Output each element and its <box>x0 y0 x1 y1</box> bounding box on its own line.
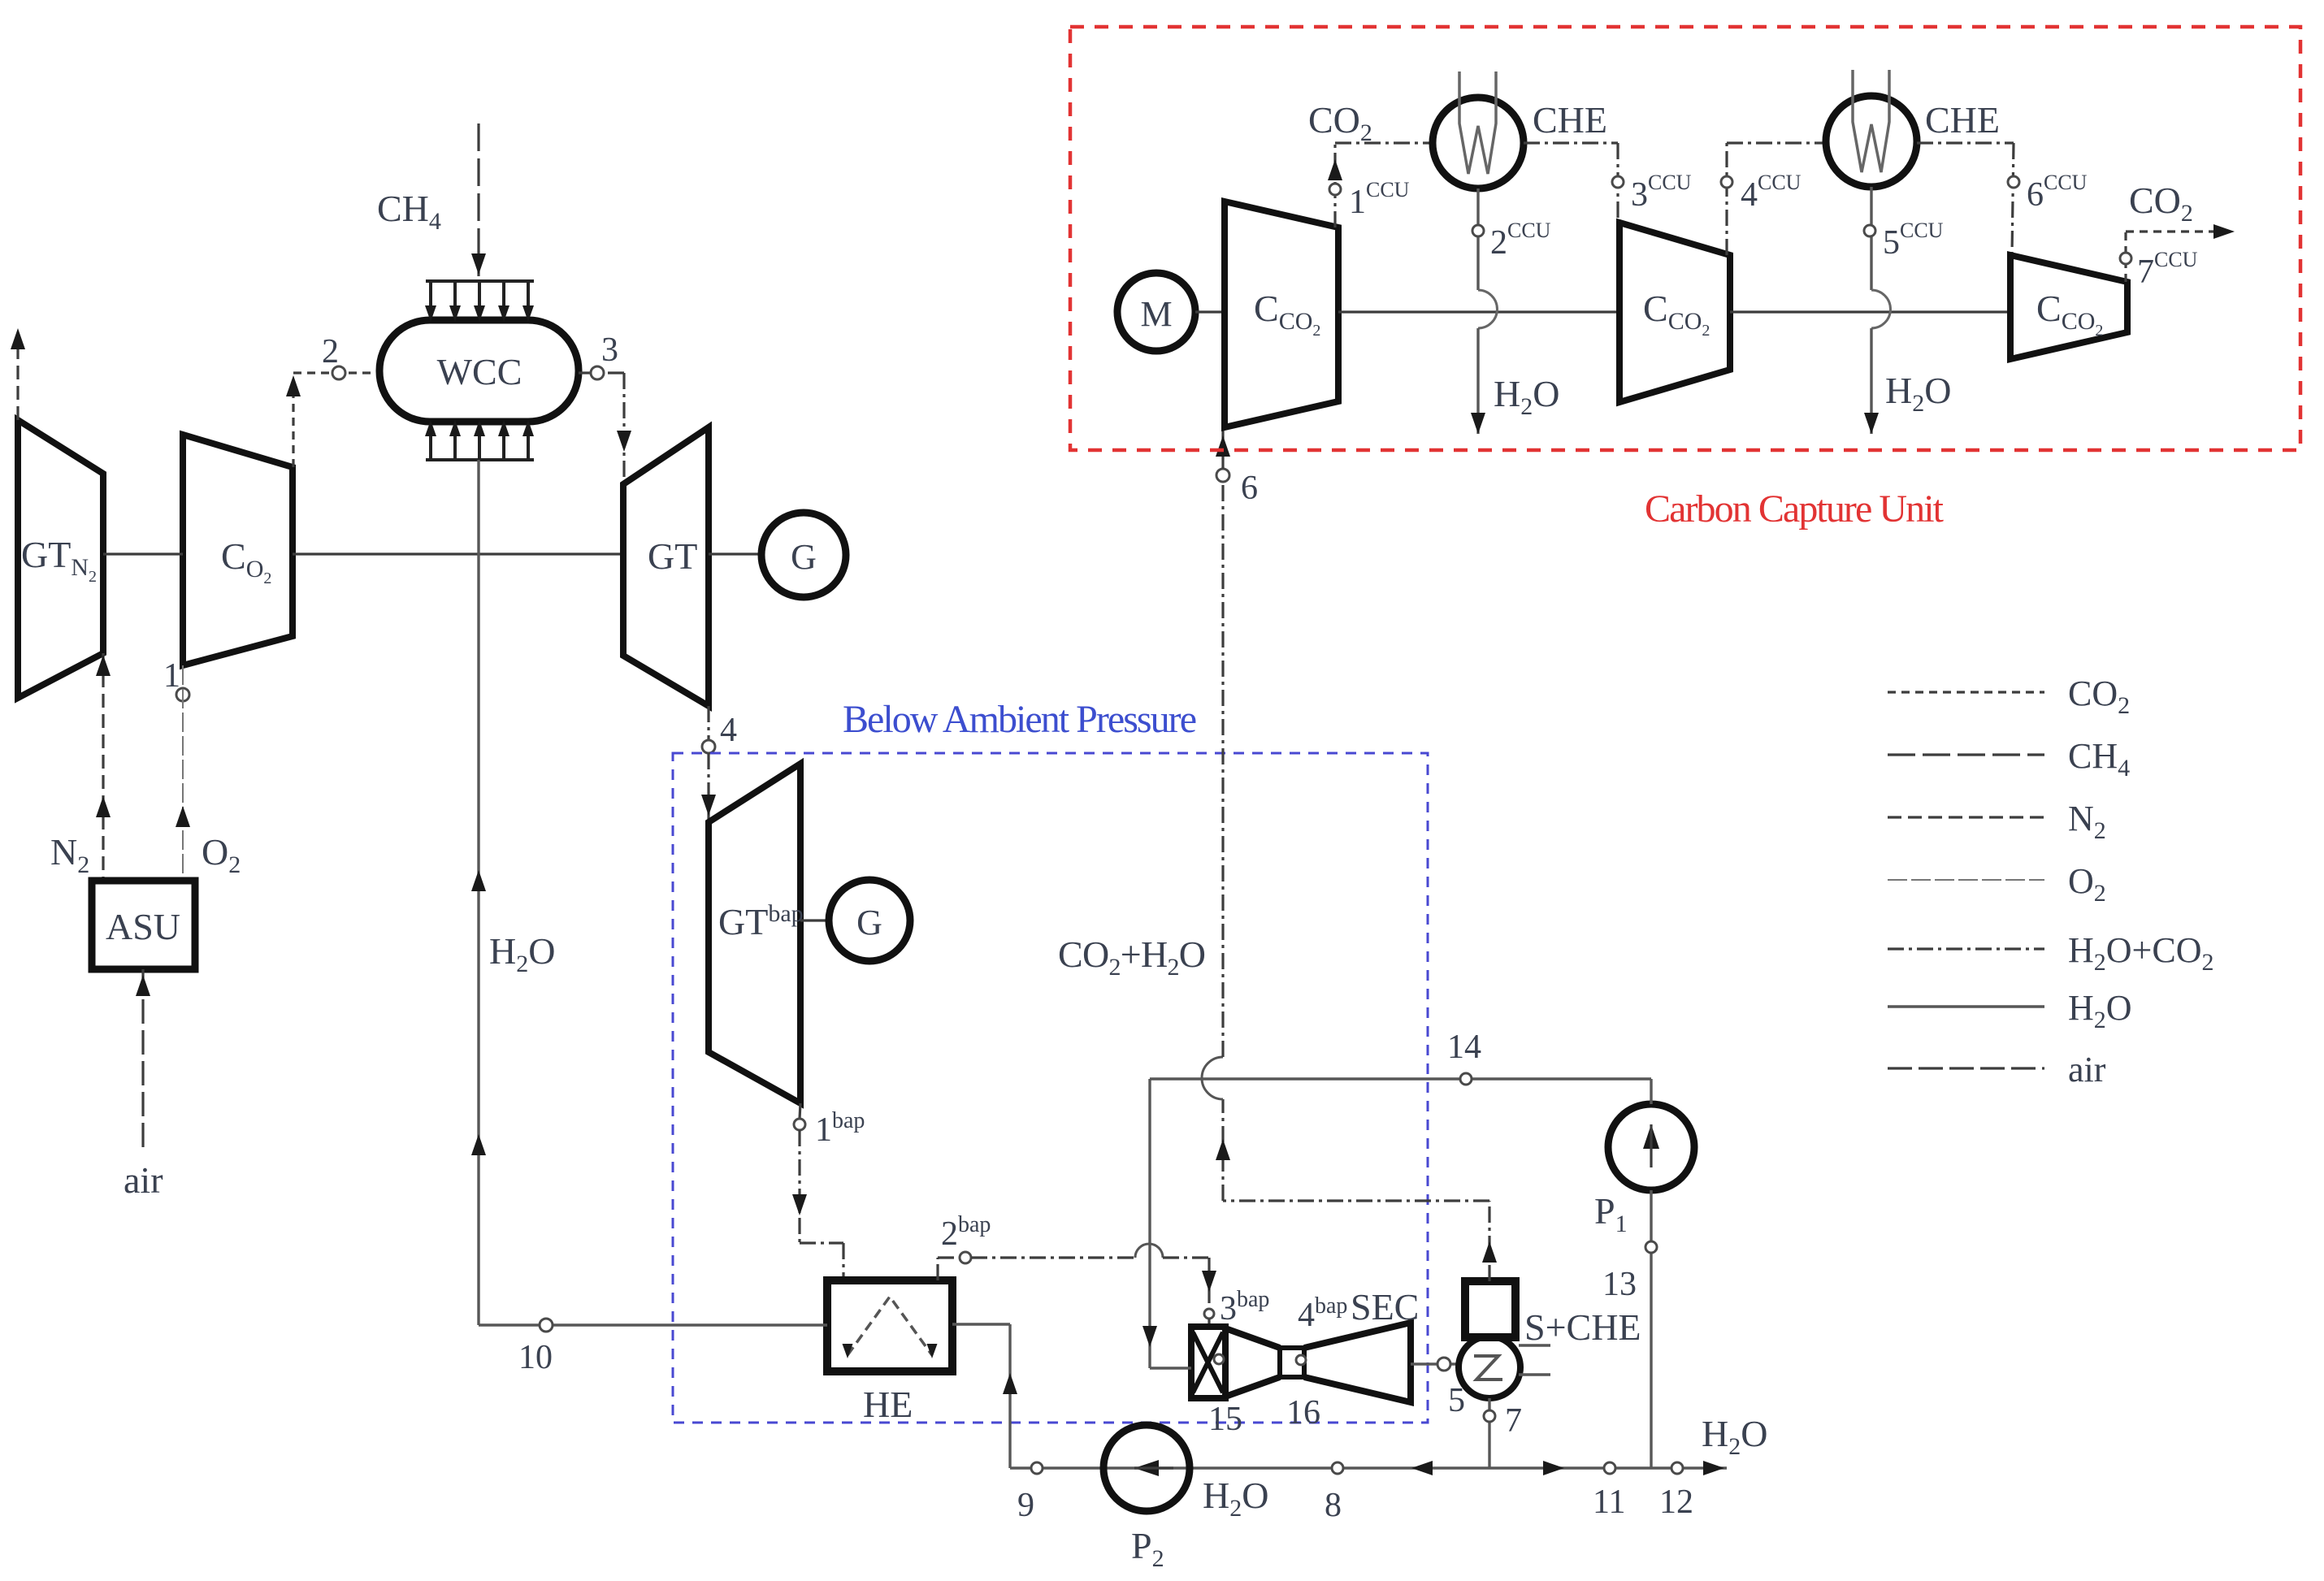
wire C3 outlet node 7ccu CO2 out <box>2124 232 2127 282</box>
svg-text:CO2: CO2 <box>2129 180 2193 227</box>
ASU box <box>92 881 195 969</box>
wire CHE1 to node 3ccu <box>1524 141 1618 144</box>
svg-text:6CCU: 6CCU <box>2027 171 2088 214</box>
wire C2 outlet node 4ccu <box>1725 143 1728 255</box>
legend O2 <box>1888 879 2044 881</box>
svg-text:7CCU: 7CCU <box>2137 248 2198 291</box>
node 1bap <box>800 1103 800 1119</box>
svg-text:7: 7 <box>1505 1402 1522 1440</box>
heat exchanger CHE1 <box>1433 97 1524 188</box>
wire CH4 into WCC <box>477 123 479 276</box>
wire S+CHE drain node 7 <box>1488 1398 1490 1468</box>
svg-text:G: G <box>791 537 817 577</box>
svg-text:P1: P1 <box>1594 1190 1628 1237</box>
svg-text:O2: O2 <box>202 831 241 878</box>
wire N2 ASU to GTN2 <box>102 653 104 881</box>
WCC bottom injector comb <box>426 435 534 460</box>
svg-text:CHE: CHE <box>1533 99 1607 141</box>
node 1 <box>176 688 189 701</box>
wire GT exhaust node 4 <box>707 706 709 740</box>
shaft M-C1 <box>1195 310 1225 313</box>
svg-text:1CCU: 1CCU <box>1349 178 1410 221</box>
node 6 <box>1216 469 1229 482</box>
svg-text:14: 14 <box>1447 1029 1481 1066</box>
svg-text:4bap: 4bap <box>1298 1293 1347 1334</box>
wire HE to node 2bap <box>936 1258 939 1280</box>
wire CHE2 condensate drain <box>1870 187 1872 290</box>
svg-text:12: 12 <box>1659 1484 1693 1521</box>
ejector SEC body <box>1225 1328 1280 1397</box>
ejector nozzle <box>1193 1332 1223 1393</box>
svg-text:11: 11 <box>1593 1484 1625 1521</box>
svg-text:GTbap: GTbap <box>718 900 804 942</box>
wire CO2+H2O riser <box>1221 1099 1224 1201</box>
svg-text:H2O: H2O <box>1702 1413 1767 1460</box>
svg-text:CO2: CO2 <box>221 535 271 587</box>
wire P1 up and across node 14 <box>1650 1079 1652 1104</box>
svg-text:P2: P2 <box>1131 1525 1164 1572</box>
wire air into ASU <box>141 969 144 1147</box>
svg-text:H2O+CO2: H2O+CO2 <box>2068 930 2214 976</box>
svg-text:air: air <box>124 1159 163 1201</box>
compressor C_CO2 1 <box>1225 201 1338 427</box>
svg-text:N2: N2 <box>50 831 89 878</box>
svg-text:H2O: H2O <box>1203 1475 1268 1522</box>
wire C1 outlet node 1ccu <box>1333 143 1336 227</box>
shaft C2-C3 <box>1730 310 2010 313</box>
svg-text:WCC: WCC <box>437 351 522 392</box>
svg-text:CO2: CO2 <box>1308 99 1372 146</box>
generator G <box>761 513 846 597</box>
svg-text:16: 16 <box>1286 1394 1320 1432</box>
dashed boundary: Below Ambient Pressure box <box>673 753 1428 1423</box>
svg-text:N2: N2 <box>2068 799 2106 844</box>
wire water to ejector inlet <box>1148 1079 1151 1368</box>
legend H2O <box>1888 1005 2044 1007</box>
ejector SEC suction box <box>1191 1327 1225 1398</box>
separator S+CHE <box>1465 1281 1515 1337</box>
svg-text:Below Ambient Pressure: Below Ambient Pressure <box>843 698 1197 741</box>
legend N2 <box>1888 816 2044 818</box>
svg-text:CCO2: CCO2 <box>2036 288 2103 340</box>
wire S+CHE vapor to CCU <box>1488 1201 1490 1281</box>
pump P1 <box>1608 1104 1694 1190</box>
wire 2bap to SEC suction <box>971 1256 1135 1258</box>
heat exchanger HE <box>827 1280 952 1371</box>
wire ejector outlet node 5 <box>1411 1362 1459 1365</box>
turbine GTbap <box>709 764 800 1103</box>
turbine GTN2 <box>18 420 103 698</box>
wire to CHE1 <box>1335 141 1433 144</box>
svg-text:H2O: H2O <box>1885 370 1951 417</box>
svg-text:HE: HE <box>863 1384 913 1425</box>
shaft GT-G <box>709 552 761 555</box>
svg-text:10: 10 <box>518 1339 553 1376</box>
svg-text:CCO2: CCO2 <box>1254 288 1320 340</box>
svg-text:SEC: SEC <box>1351 1286 1419 1328</box>
svg-text:M: M <box>1140 294 1172 334</box>
pump P2 <box>1103 1425 1190 1511</box>
svg-text:3CCU: 3CCU <box>1631 171 1692 214</box>
svg-text:5CCU: 5CCU <box>1883 219 1944 262</box>
dashed boundary: Carbon Capture Unit box <box>1070 27 2300 450</box>
svg-text:2CCU: 2CCU <box>1490 219 1551 262</box>
heat exchanger CHE2 <box>1826 96 1917 187</box>
shaft GTN2-CO2 <box>103 552 183 555</box>
wire node 9 up to HE <box>1008 1324 1011 1468</box>
generator G bap <box>829 880 910 961</box>
legend air <box>1888 1067 2044 1069</box>
svg-text:CCO2: CCO2 <box>1643 288 1710 340</box>
svg-text:H2O: H2O <box>489 930 555 977</box>
svg-text:CHE: CHE <box>1925 99 2000 141</box>
motor M <box>1117 273 1195 351</box>
wire CHE2 to node 6ccu <box>1917 141 2014 144</box>
svg-text:CO2+H2O: CO2+H2O <box>1058 933 1206 981</box>
svg-text:2bap: 2bap <box>941 1212 991 1253</box>
legend CH4 <box>1888 753 2044 756</box>
combustor WCC <box>379 320 579 422</box>
svg-text:4: 4 <box>720 712 737 749</box>
wire 1bap to HE <box>798 1130 800 1243</box>
svg-text:CH4: CH4 <box>377 188 441 235</box>
svg-text:H2O: H2O <box>2068 988 2132 1033</box>
svg-text:9: 9 <box>1017 1487 1034 1524</box>
shaft C1-C2 <box>1338 310 1619 313</box>
compressor C_CO2 2 <box>1619 223 1730 402</box>
svg-text:13: 13 <box>1602 1266 1637 1303</box>
svg-text:CO2: CO2 <box>2068 674 2130 719</box>
svg-text:2: 2 <box>322 333 339 370</box>
node 2 <box>332 366 345 379</box>
svg-text:S+CHE: S+CHE <box>1524 1306 1641 1348</box>
svg-text:CH4: CH4 <box>2068 736 2130 782</box>
wire CHE1 condensate drain <box>1476 188 1479 290</box>
wire HE to node 10 to WCC riser <box>479 1323 827 1326</box>
wire N2 exhaust from GTN2 <box>16 335 19 420</box>
wire H2O riser into WCC bottom <box>477 460 479 1325</box>
svg-text:H2O: H2O <box>1494 373 1559 420</box>
svg-text:Carbon Capture Unit: Carbon Capture Unit <box>1645 487 1945 531</box>
svg-text:3bap: 3bap <box>1220 1287 1269 1328</box>
svg-text:G: G <box>856 903 882 942</box>
shaft GTbap-G <box>800 919 829 921</box>
svg-text:4CCU: 4CCU <box>1741 171 1802 214</box>
svg-text:15: 15 <box>1208 1401 1242 1438</box>
wire bottom H2O header <box>1010 1466 1727 1469</box>
turbine GT <box>623 427 709 706</box>
wire O2 ASU to CO2 compressor <box>182 665 184 881</box>
legend H2O+CO2 <box>1888 947 2044 950</box>
svg-text:1: 1 <box>163 657 180 695</box>
shaft CO2-GT <box>293 552 623 555</box>
legend CO2 <box>1888 691 2044 693</box>
compressor CO2 <box>183 435 293 665</box>
svg-text:ASU: ASU <box>106 906 180 947</box>
svg-text:GTN2: GTN2 <box>21 534 97 586</box>
svg-text:O2: O2 <box>2068 861 2106 907</box>
wire CO2 outlet to WCC <box>292 382 294 467</box>
svg-text:air: air <box>2068 1050 2106 1089</box>
svg-text:3: 3 <box>601 331 618 369</box>
svg-text:6: 6 <box>1241 470 1258 507</box>
wire WCC to GT node 3 <box>579 371 624 374</box>
WCC top injector comb <box>426 281 534 307</box>
svg-text:1bap: 1bap <box>815 1108 865 1149</box>
svg-text:8: 8 <box>1325 1487 1342 1524</box>
compressor C_CO2 3 <box>2010 255 2127 359</box>
svg-text:GT: GT <box>648 535 697 577</box>
wire P1 down to header <box>1650 1190 1652 1468</box>
